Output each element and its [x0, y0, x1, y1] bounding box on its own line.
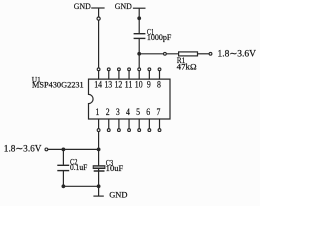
ground GND (bottom)	[93, 186, 127, 199]
resistor R1	[177, 52, 198, 72]
junction dot (C1 / R1 tap)	[137, 52, 141, 56]
svg-text:9: 9	[147, 80, 151, 90]
pin 3	[116, 108, 120, 131]
terminal node (open circle, left)	[45, 148, 48, 151]
ground GND (top middle)	[115, 1, 146, 18]
wire C3 to bottom rail	[98, 169, 100, 187]
junction dot (GND2 wire)	[137, 16, 141, 20]
wire GND2 to C1	[138, 18, 140, 33]
svg-text:13: 13	[104, 80, 112, 90]
ground GND (top left)	[74, 1, 105, 17]
junction dot (pin1 / C3 tap)	[97, 148, 101, 152]
wire junction to R1	[139, 53, 178, 55]
terminal node (open circle)	[209, 52, 212, 55]
svg-text:10uF: 10uF	[106, 164, 124, 173]
capacitor C3 (electrolytic)	[93, 159, 124, 174]
capacitor C2	[57, 158, 88, 172]
pin 12	[115, 68, 123, 91]
svg-text:3: 3	[116, 108, 120, 118]
wire R1 to terminal	[198, 53, 210, 55]
wire GND1 to pin 14	[98, 20, 100, 68]
svg-text:6: 6	[146, 108, 150, 118]
IC U1 MSP430G2231 body	[32, 75, 170, 119]
svg-text:GND: GND	[109, 189, 127, 199]
node (open junction on GND1 wire)	[97, 17, 100, 20]
pin 8	[157, 68, 161, 91]
pin 11	[125, 68, 133, 91]
junction dot (rail right)	[97, 184, 101, 188]
wire pin 1 down	[98, 132, 100, 150]
pin 5	[136, 108, 140, 131]
svg-text:5: 5	[136, 108, 140, 118]
junction dot (C2 tap)	[62, 148, 66, 152]
svg-text:GND: GND	[115, 1, 132, 11]
capacitor C1	[134, 28, 172, 43]
wire C2 to bottom rail	[62, 171, 64, 187]
svg-text:1000pF: 1000pF	[147, 33, 172, 42]
svg-text:0.1uF: 0.1uF	[70, 163, 88, 172]
wire terminal to pin1 column	[48, 148, 99, 150]
svg-text:7: 7	[156, 108, 160, 118]
svg-text:2: 2	[106, 108, 110, 118]
pin 14	[94, 68, 102, 91]
svg-text:1.8∼3.6V: 1.8∼3.6V	[4, 145, 42, 155]
svg-text:11: 11	[125, 80, 133, 90]
svg-text:8: 8	[157, 80, 161, 90]
pin 6	[146, 108, 150, 131]
pin 4	[126, 108, 130, 131]
wire C1 to pin 10	[138, 38, 140, 67]
wire to C3	[98, 149, 100, 165]
wire to C2	[62, 149, 64, 164]
svg-text:47kΩ: 47kΩ	[177, 62, 197, 71]
pin 10	[135, 68, 143, 91]
pin 7	[156, 108, 160, 131]
bottom rail wire	[63, 185, 98, 187]
node (open circle on wire)	[164, 52, 167, 55]
pin 2	[106, 108, 110, 131]
pin 13	[104, 68, 112, 91]
svg-text:1.8∼3.6V: 1.8∼3.6V	[218, 50, 257, 60]
svg-text:12: 12	[115, 80, 123, 90]
pin 9	[147, 68, 151, 91]
junction dot (rail left)	[62, 184, 66, 188]
svg-text:MSP430G2231: MSP430G2231	[32, 81, 84, 90]
svg-text:GND: GND	[74, 1, 91, 11]
pin 1	[96, 108, 100, 131]
svg-text:4: 4	[126, 108, 130, 118]
svg-text:1: 1	[96, 108, 100, 118]
svg-text:14: 14	[94, 80, 102, 90]
svg-text:10: 10	[135, 80, 143, 90]
